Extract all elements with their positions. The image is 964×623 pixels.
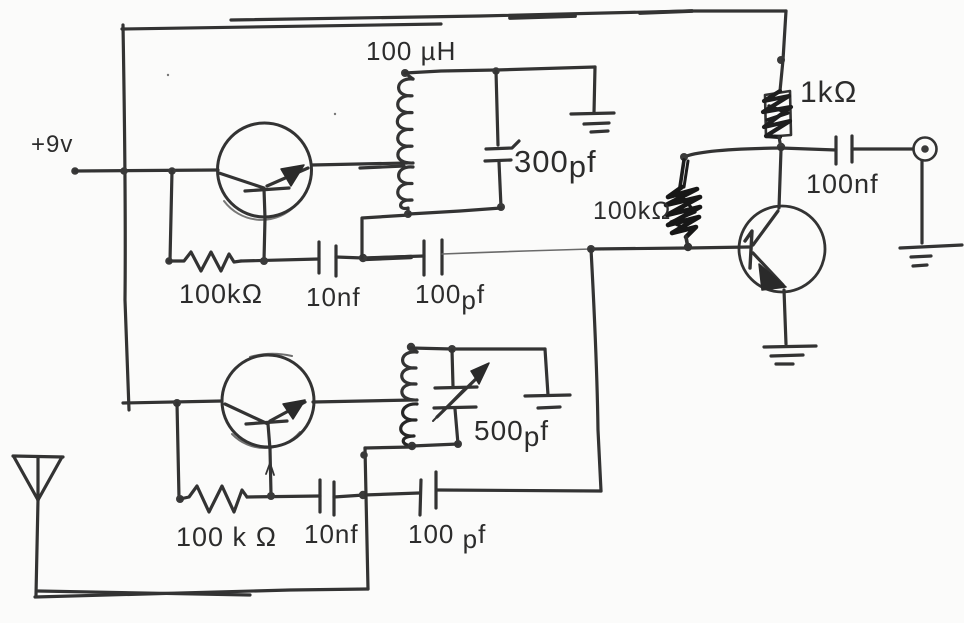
wire C5 to C6 (334, 493, 419, 497)
node supply bus junction (120, 167, 128, 175)
wire L2 bottom left corner (365, 447, 412, 448)
node R3 top feed (777, 56, 785, 64)
wire R4 to C5 (247, 496, 320, 497)
wire C1 to C2 (336, 256, 424, 258)
transistor Q2 (222, 354, 314, 449)
wire collector node to C4 (781, 148, 836, 150)
capacitor C3 300pf (485, 71, 519, 207)
node +9V terminal (71, 167, 79, 175)
node L1 top (401, 69, 409, 77)
wire C6 to long vertical (437, 490, 601, 491)
antenna AE1 (13, 456, 63, 595)
svg-text:100nf: 100nf (806, 169, 879, 199)
wire long vertical to upper line (591, 249, 601, 491)
wire Q2 emitter down (266, 449, 274, 494)
node R2 top (680, 153, 688, 161)
node C3 top (492, 67, 500, 75)
transistor Q1 (218, 123, 312, 220)
node Q1 emitter junction (260, 257, 268, 265)
node L2 top (407, 343, 415, 351)
svg-text:100kΩ: 100kΩ (179, 279, 263, 309)
wire Q2 bias vertical (177, 403, 179, 498)
node C3 bottom (497, 203, 505, 211)
node Q1 bias tap (168, 167, 176, 175)
node Q2 bias tap (173, 399, 181, 407)
wire L2 bottom to C7 bottom (412, 444, 458, 446)
svg-text:1kΩ: 1kΩ (800, 76, 858, 109)
wire down to ground G1 (594, 67, 595, 113)
svg-text:500pf: 500pf (474, 415, 549, 452)
node C7 top (448, 345, 456, 353)
node antenna link junction (359, 491, 367, 499)
resistor R3 1k (763, 60, 791, 148)
svg-text:100 k Ω: 100 k Ω (176, 522, 277, 552)
node R4 left (176, 495, 184, 503)
node L2 bottom (408, 442, 416, 450)
speck (334, 113, 336, 115)
wire Q3 emitter to ground (784, 290, 786, 344)
wire R2 top to collector node (684, 148, 781, 157)
wire antenna bus vertical (365, 448, 368, 589)
wire C2 to Q3 base line (442, 247, 749, 254)
wire L2 top rail (411, 348, 545, 349)
transistor Q3 (739, 150, 825, 292)
svg-text:300pf: 300pf (514, 144, 597, 184)
wire Q1 bias vertical (170, 171, 172, 261)
resistor R1 100k (upper) (169, 252, 241, 271)
wire link up to L1 bottom (362, 215, 409, 258)
wire terminal to ground G3 (920, 161, 923, 243)
wire Q1 collector to L1 tap (312, 163, 407, 168)
capacitor C5 10nf (lower) (320, 480, 334, 515)
capacitor plate (fixed) (525, 395, 570, 408)
resistor R4 100k (lower) (180, 486, 247, 512)
node link junction (359, 254, 367, 262)
svg-text:+9v: +9v (31, 131, 73, 158)
wire to fixed plate (545, 349, 548, 395)
node L1 bottom (404, 210, 412, 218)
node R3 bottom / Q3 collector (777, 143, 785, 151)
capacitor C6 100pf (lower) (420, 472, 436, 515)
resistor R2 100k (vertical) (666, 160, 700, 251)
wire bottom rail (35, 589, 368, 597)
wire top supply rail (122, 11, 786, 60)
wire C4 to output terminal (852, 147, 913, 150)
variable capacitor C7 500pf (433, 350, 489, 444)
wire L1 top to ground corner (405, 67, 595, 73)
ground G3 (900, 245, 962, 266)
wire lower feed to Q2 (123, 401, 222, 403)
speck (167, 74, 169, 76)
svg-text:10nf: 10nf (306, 282, 361, 312)
node below corner (360, 451, 368, 459)
node bias-resistor left (165, 257, 173, 265)
wire left supply bus (123, 25, 129, 410)
node long-wire junction (587, 245, 595, 253)
capacitor C1 10nf (upper) (319, 242, 336, 276)
ground G2 (764, 346, 816, 364)
capacitor C4 100nf (836, 136, 852, 164)
wire Q2 collector to L2 tap (313, 400, 413, 402)
output terminal J1 (914, 138, 937, 161)
svg-text:100 pf: 100 pf (408, 519, 486, 554)
wire Q1 emitter down (264, 218, 265, 261)
node Q2 emitter junction (267, 492, 275, 500)
inductor L1 100uH (397, 73, 413, 214)
wire +9V feed to Q1 (75, 170, 218, 171)
svg-text:100kΩ: 100kΩ (593, 197, 671, 225)
wire C3 bottom to L1 bottom (409, 208, 501, 214)
wire R1 to emitter node (241, 259, 319, 261)
svg-text:10nf: 10nf (304, 519, 359, 549)
ground G1 (571, 113, 614, 132)
svg-text:100 µH: 100 µH (366, 36, 456, 66)
inductor L2 500pf tank coil (401, 347, 417, 446)
node C7 bottom (454, 440, 462, 448)
capacitor C2 100pf (upper) (424, 240, 442, 275)
svg-text:100pf: 100pf (415, 279, 485, 315)
